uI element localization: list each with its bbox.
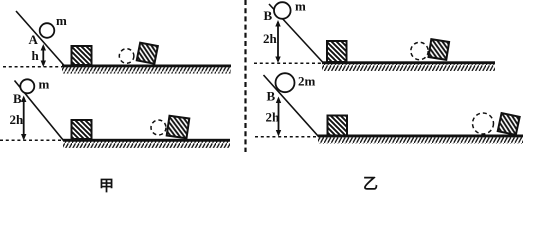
svg-text:2m: 2m (298, 74, 316, 89)
svg-text:A: A (29, 32, 39, 47)
svg-text:B: B (267, 89, 276, 104)
svg-text:乙: 乙 (363, 177, 378, 193)
svg-text:2h: 2h (263, 31, 278, 46)
svg-text:2h: 2h (266, 110, 281, 125)
svg-text:m: m (39, 77, 50, 92)
svg-text:甲: 甲 (99, 178, 114, 195)
svg-text:B: B (13, 91, 22, 106)
svg-text:h: h (32, 48, 40, 63)
svg-text:m: m (56, 13, 67, 28)
svg-text:2h: 2h (10, 112, 25, 127)
svg-text:B: B (264, 8, 273, 23)
svg-text:m: m (295, 0, 306, 14)
